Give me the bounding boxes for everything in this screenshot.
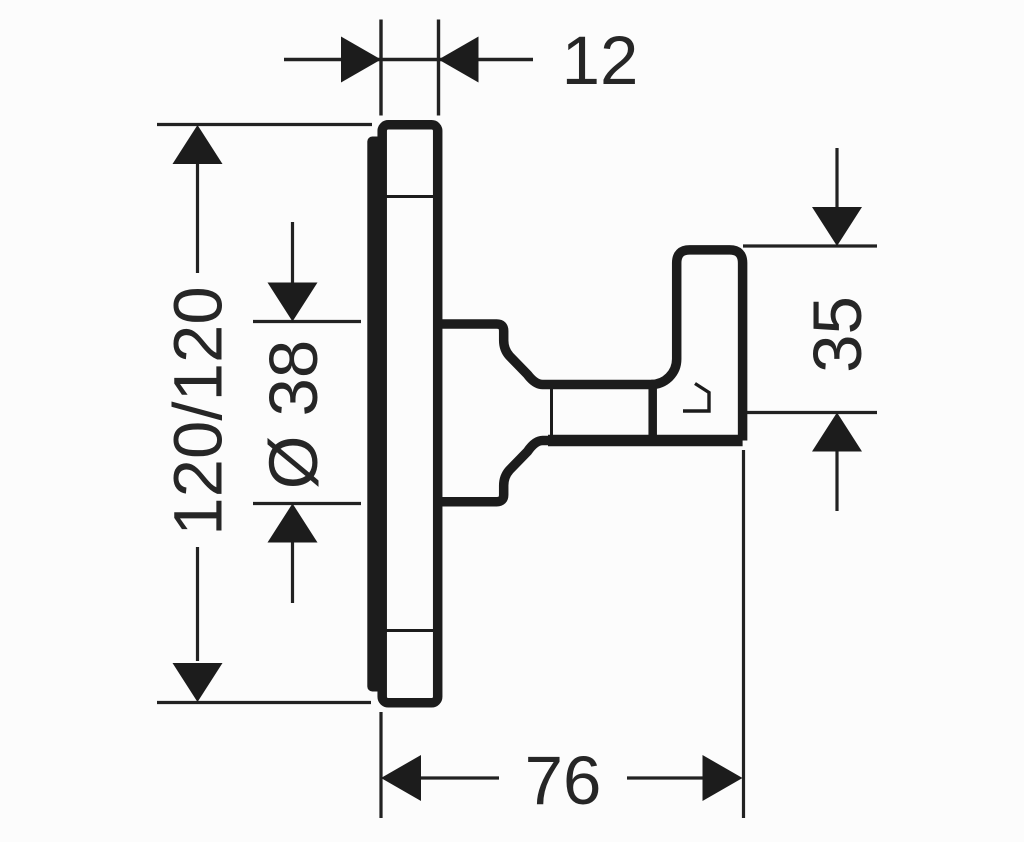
dim 76: arrow pointing right [703, 755, 743, 801]
wall flange bar (left thick bar of plate) [367, 137, 382, 692]
dim 76: right extension line [742, 450, 745, 818]
dim 76: arrow pointing left [381, 755, 421, 801]
dim 12: arrow pointing left [439, 37, 479, 83]
dim Ø38: arrow up [268, 504, 318, 543]
dim 76: right tail [627, 776, 703, 779]
sleeve lower outline + bottom taper [442, 441, 560, 502]
dim 35: arrow down [812, 207, 862, 246]
dim Ø38: lower arrow tail [291, 543, 294, 604]
stem/lever hub joint line [648, 385, 657, 441]
svg-text:35: 35 [799, 296, 876, 373]
dim 35: upper arrow tail [835, 148, 838, 208]
dim 35: upper tick line [743, 244, 877, 247]
dim 120/120: arrow down [173, 663, 223, 702]
stem detail line (cone/stem joint) [550, 389, 553, 437]
dim 12: arrow pointing right [341, 37, 381, 83]
dim 35: lower tick line [747, 411, 877, 414]
dim 120/120: lower tail [196, 547, 199, 661]
dim Ø38: arrow down [268, 283, 318, 322]
dim 76: left extension line [379, 712, 382, 818]
dim 76: left tail [421, 776, 499, 779]
svg-text:Ø 38: Ø 38 [255, 340, 332, 490]
dim 12: dimension line [284, 58, 533, 61]
svg-text:12: 12 [562, 22, 639, 99]
dim Ø38: upper tick line [253, 320, 361, 323]
escutcheon plate body (side view rounded rectangle) [382, 125, 438, 703]
dim 35: lower arrow tail [835, 452, 838, 512]
lever inner detail mark [683, 384, 709, 412]
dim 12: extension line left [379, 20, 382, 116]
dim 35: arrow up [812, 413, 862, 452]
dim 120/120: arrow up [173, 125, 223, 164]
svg-text:76: 76 [525, 742, 602, 819]
plate inner line upper [386, 195, 435, 198]
dim Ø38: lower tick line [253, 502, 361, 505]
dim 120/120: top extension line [157, 123, 372, 126]
dim Ø38: upper arrow tail [291, 222, 294, 283]
dim 120/120: bottom extension line [157, 701, 371, 704]
dim 120/120: upper tail [196, 164, 199, 273]
lever handle outline [651, 250, 742, 441]
dim 12: extension line right [437, 20, 440, 116]
sleeve upper outline + top taper + stem top edge [442, 324, 653, 385]
stem and lever bottom edge [548, 435, 743, 447]
svg-text:120/120: 120/120 [160, 286, 237, 535]
plate inner line lower [386, 629, 435, 632]
